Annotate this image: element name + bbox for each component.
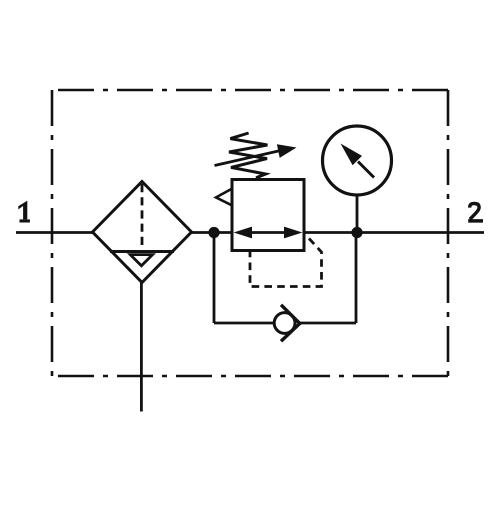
adjustment spring xyxy=(229,133,267,178)
port 1 label xyxy=(18,201,30,223)
check valve ball xyxy=(274,313,295,334)
wire: bypass down from left node xyxy=(213,233,216,324)
node (junction dot, right) xyxy=(351,227,362,238)
enclosure dash-dot border xyxy=(52,90,448,376)
separator triangle xyxy=(130,255,152,266)
adjustment arrow xyxy=(215,151,281,166)
wire: regulator to port 2 xyxy=(304,231,484,234)
regulator relief vent triangle xyxy=(216,189,232,206)
gauge stem xyxy=(356,195,359,233)
wire: inlet line from port 1 to filter xyxy=(16,231,93,234)
regulator R body xyxy=(232,180,304,251)
drain line xyxy=(140,283,143,412)
gauge needle xyxy=(358,162,374,178)
wire: filter to regulator xyxy=(192,231,233,234)
node (junction dot, left) xyxy=(208,227,219,238)
pilot (dashed) control line xyxy=(250,239,322,287)
condensate separator chord xyxy=(110,250,174,253)
wire: bypass up to right node xyxy=(355,233,358,324)
wire: bypass bottom right xyxy=(300,322,357,325)
filter F (diamond) xyxy=(93,182,192,283)
wire: bypass bottom left xyxy=(214,322,275,325)
filter element dashed line xyxy=(141,184,144,250)
port 2 label xyxy=(468,204,483,221)
pressure gauge G xyxy=(323,126,392,195)
check valve seat xyxy=(281,305,300,341)
regulator flow line with arrowheads xyxy=(240,231,296,234)
